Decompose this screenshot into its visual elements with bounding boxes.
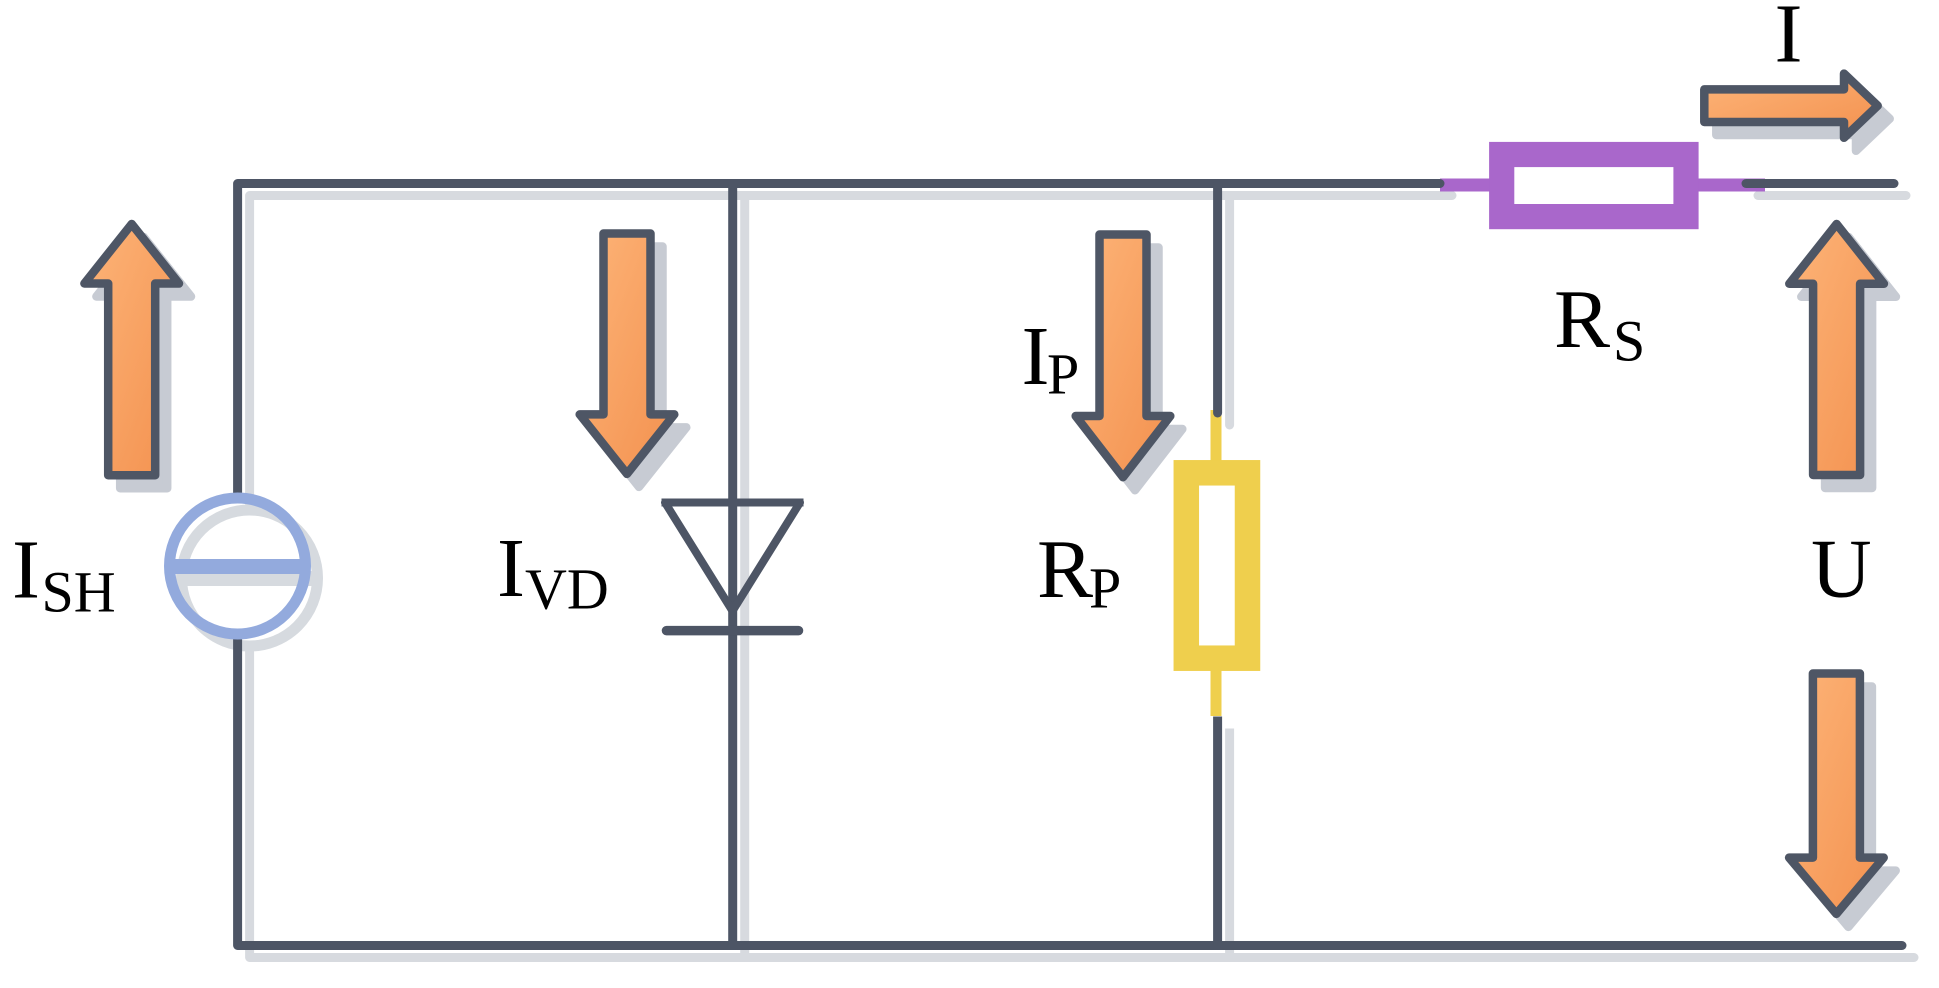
- wire: bottom rail and left branch below source: [238, 636, 1902, 946]
- svg-text:R: R: [1037, 523, 1093, 616]
- flow arrows: [84, 74, 1884, 914]
- label IVD: [497, 522, 609, 622]
- wire: diode branch: [728, 184, 737, 946]
- arrow ISH current up: [84, 224, 179, 475]
- RP bottom lead: [1211, 666, 1222, 716]
- arrow IVD current down: [580, 234, 675, 474]
- RS left lead: [1440, 179, 1495, 192]
- arrow U voltage up: [1789, 224, 1884, 475]
- svg-text:R: R: [1554, 273, 1610, 366]
- wire: RP branch lower: [1213, 717, 1222, 946]
- label ISH: [12, 524, 116, 625]
- resistor RS (series resistance, purple box with leads): [1440, 155, 1765, 217]
- resistor RP (shunt resistance, yellow box with leads): [1186, 410, 1247, 716]
- current source ISH (circle with bar): [170, 498, 306, 634]
- label RP: [1037, 523, 1121, 621]
- svg-text:P: P: [1089, 556, 1121, 621]
- wire: top rail from source branch to RS: [238, 184, 1440, 497]
- svg-text:U: U: [1811, 523, 1872, 616]
- svg-text:I: I: [1775, 0, 1803, 81]
- RP body: [1186, 473, 1247, 658]
- RP top lead: [1211, 410, 1222, 465]
- label RS: [1554, 273, 1645, 374]
- wire shadows (drop shadows of all wire segments): [250, 196, 1914, 958]
- wire: RP branch upper: [1213, 184, 1222, 414]
- label IP: [1022, 310, 1080, 407]
- wire: output lead right of RS: [1746, 179, 1894, 188]
- arrow shadows (drop shadows of the six flow arrows): [96, 87, 1896, 927]
- RS right lead: [1692, 179, 1765, 192]
- svg-text:VD: VD: [525, 557, 609, 622]
- svg-text:I: I: [497, 522, 525, 615]
- current source shadow: [182, 510, 318, 646]
- svg-text:I: I: [1022, 310, 1050, 403]
- svg-text:SH: SH: [42, 560, 116, 625]
- RS body: [1502, 155, 1686, 217]
- svg-text:S: S: [1613, 309, 1645, 374]
- arrow IP current down: [1076, 235, 1171, 478]
- arrow U voltage down: [1789, 674, 1884, 914]
- arrow I output current right: [1704, 74, 1877, 138]
- diode VD: [662, 503, 804, 631]
- svg-text:P: P: [1047, 342, 1079, 407]
- svg-text:I: I: [12, 524, 40, 617]
